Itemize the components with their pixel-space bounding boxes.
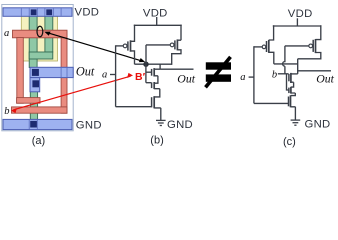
wire VDD rail (b) [134, 24, 182, 26]
wire pmos P4 gate with hop over output (c) [283, 46, 309, 74]
svg-text:GND: GND [76, 120, 102, 132]
wire pmos P1 gate to a rail (b) [116, 45, 124, 47]
Out metal bar (blue) [30, 67, 73, 77]
wire pmos P4 source (c) [316, 25, 321, 39]
wire pmos P2 source (b) [177, 25, 181, 41]
poly left vertical (salmon) [17, 38, 24, 104]
nmos N1 channel (b) [153, 68, 155, 76]
pmos P4 channel (c) [315, 39, 317, 53]
wire nmos N4 drain (c) [291, 73, 298, 75]
svg-text:(a): (a) [32, 135, 45, 147]
wire input a stub (b) [110, 74, 116, 76]
contact Out to nmos drain [32, 80, 39, 87]
nmos N5 channel (c) [290, 87, 292, 94]
svg-text:b: b [272, 70, 277, 81]
wire VDD rail (c) [273, 25, 322, 27]
wire nmos N6 source (c) [291, 107, 296, 120]
wire pmos P2 gate riser (b) [146, 45, 170, 64]
ground symbol (c) [291, 120, 301, 125]
nmos N1 gate bar (b) [151, 69, 153, 76]
pmos P3 gate bubble (c) [262, 45, 266, 49]
cell boundary [2, 5, 73, 131]
nmos N3 gate bar (b) [151, 97, 153, 107]
wire pmos P3 gate to a rail (c) [254, 46, 262, 48]
wire input a rail (b) [115, 45, 117, 106]
pmos P3 channel (c) [268, 40, 270, 53]
svg-text:(c): (c) [283, 136, 296, 148]
poly right vertical (salmon) [61, 31, 67, 113]
svg-text:b: b [4, 106, 9, 117]
pmos P4 gate bubble (c) [309, 44, 313, 48]
contact Out to pmos drain [32, 69, 39, 76]
pmos P2 channel (b) [176, 39, 178, 50]
VDD metal rail (blue) [3, 8, 72, 16]
wire a rail to nmos N3 gate (b) [116, 106, 152, 108]
wire pmos P1 source (b) [131, 25, 135, 42]
GND metal rail (blue) [3, 119, 72, 129]
red annotation arrow b to B' [11, 73, 133, 113]
pmos P4 gate bar (c) [312, 40, 314, 52]
nmos N3 channel (b) [153, 96, 155, 108]
poly bottom bar 1 (salmon) [17, 98, 40, 104]
pmos P1 gate bubble (b) [123, 44, 127, 48]
pmos diffusion strip left (green) [29, 16, 37, 68]
n-well / select region (yellow) [21, 16, 57, 61]
Out bar divisions at poly crossing [61, 68, 67, 77]
VDD rail track divisions [21, 8, 61, 16]
pmos diffusion cross bar (green) [29, 52, 53, 59]
wire VDD stub (c) [296, 18, 298, 26]
wire input a stub (c) [249, 76, 254, 78]
wire node riser to nmos gates (b) [145, 64, 147, 83]
nmos diffusion strip (green) [30, 89, 37, 120]
pmos P1 channel (b) [130, 40, 132, 51]
contact GND to nmos source [30, 121, 37, 128]
wire Out (c) [298, 70, 331, 72]
svg-text:VDD: VDD [75, 7, 100, 19]
wire nmos N3 source (b) [154, 108, 161, 121]
wire VDD stub (b) [156, 17, 158, 25]
wire nmos N2 source (b) [154, 89, 160, 97]
nmos N2 gate bar (b) [151, 82, 153, 88]
poly bottom bar 2 input b (salmon) [12, 107, 68, 113]
nmos N4 gate bar (c) [288, 74, 290, 81]
pmos P3 gate bar (c) [266, 41, 268, 52]
pmos P2 gate bar (b) [174, 40, 176, 49]
pmos diffusion strip right (green) [45, 16, 53, 52]
wire nmos N1 drain (b) [154, 64, 160, 70]
svg-text:GND: GND [167, 119, 193, 131]
svg-text:a: a [102, 69, 107, 80]
wire nmos N1 gate (b) [146, 71, 151, 73]
wire pmos P3 source (c) [269, 25, 274, 40]
svg-text:VDD: VDD [143, 7, 168, 19]
svg-text:Out: Out [316, 71, 334, 85]
GND rail track divisions [29, 120, 37, 129]
nmos N5 gate bar (c) [288, 88, 290, 94]
wire input a rail (c) [253, 46, 255, 103]
wire pmos P4 drain (c) [298, 53, 321, 74]
nmos N4 channel (c) [290, 73, 292, 83]
contact VDD to pmos source 1 [31, 9, 37, 15]
svg-text:GND: GND [305, 119, 331, 131]
svg-text:a: a [240, 72, 245, 83]
wire output node (c) [274, 63, 298, 65]
svg-text:Out: Out [76, 65, 95, 79]
svg-text:a: a [4, 28, 9, 39]
black annotation arrow b' gate to node B' [44, 32, 145, 62]
wire Out (b) [160, 68, 193, 70]
nmos N6 channel (c) [290, 95, 292, 107]
pmos P2 gate bubble (b) [170, 43, 174, 47]
nmos N2 channel (b) [153, 82, 155, 89]
ellipse marker hidden gate b' [37, 26, 43, 37]
poly input a top bar (salmon) [13, 30, 68, 38]
Out metal vertical stub (blue) [30, 78, 40, 92]
wire pmos P2 drain (b) [172, 50, 181, 65]
svg-text:VDD: VDD [288, 8, 313, 20]
wire pmos P3 drain (c) [269, 52, 274, 64]
wire output node (b) [135, 63, 172, 65]
wire input b (c) [278, 73, 289, 75]
svg-text:Out: Out [177, 72, 195, 86]
not-equal symbol [206, 57, 232, 87]
contact VDD to pmos source 2 [46, 9, 52, 15]
wire pmos P1 drain (b) [131, 51, 135, 64]
svg-text:(b): (b) [150, 135, 163, 147]
svg-text:B′: B′ [135, 71, 146, 83]
wire nmos N4 source (c) [291, 82, 294, 87]
wire nmos N1 source (b) [154, 76, 158, 83]
pmos P1 gate bar (b) [127, 41, 129, 50]
wire b riser to nmos N5 gate (c) [287, 74, 289, 90]
wire nmos N2 gate (b) [146, 82, 151, 84]
wire a rail to nmos N6 gate (c) [254, 102, 288, 104]
junction node B' (b) [143, 61, 148, 66]
ground symbol (b) [156, 120, 166, 125]
wire nmos N5 source (c) [291, 93, 295, 96]
nmos N6 gate bar (c) [288, 97, 290, 107]
